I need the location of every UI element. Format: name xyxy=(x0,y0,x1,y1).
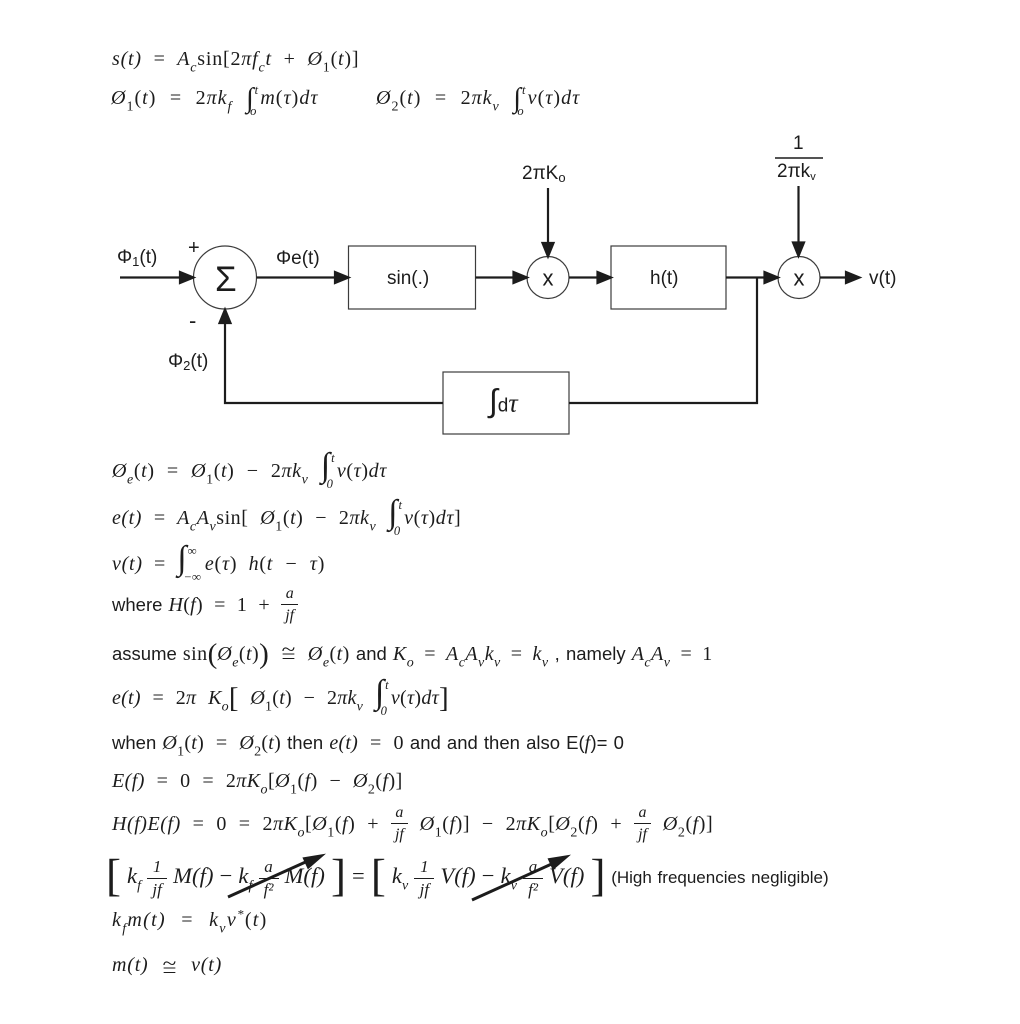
svg-text:∫dτ: ∫dτ xyxy=(487,383,519,419)
svg-text:h(t): h(t) xyxy=(650,268,679,289)
svg-text:Φ1(t): Φ1(t) xyxy=(117,247,157,269)
svg-text:-: - xyxy=(189,308,196,333)
svg-text:x: x xyxy=(794,266,805,291)
svg-text:2πKo: 2πKo xyxy=(522,163,566,185)
svg-text:v(t): v(t) xyxy=(869,268,896,289)
svg-text:2πkv: 2πkv xyxy=(777,161,816,183)
svg-text:+: + xyxy=(188,237,200,259)
svg-text:x: x xyxy=(543,266,554,291)
svg-text:sin(.): sin(.) xyxy=(387,268,429,289)
svg-text:1: 1 xyxy=(793,133,804,154)
svg-text:Φe(t): Φe(t) xyxy=(276,248,320,269)
svg-text:Σ: Σ xyxy=(215,260,237,299)
svg-text:Φ2(t): Φ2(t) xyxy=(168,351,208,373)
